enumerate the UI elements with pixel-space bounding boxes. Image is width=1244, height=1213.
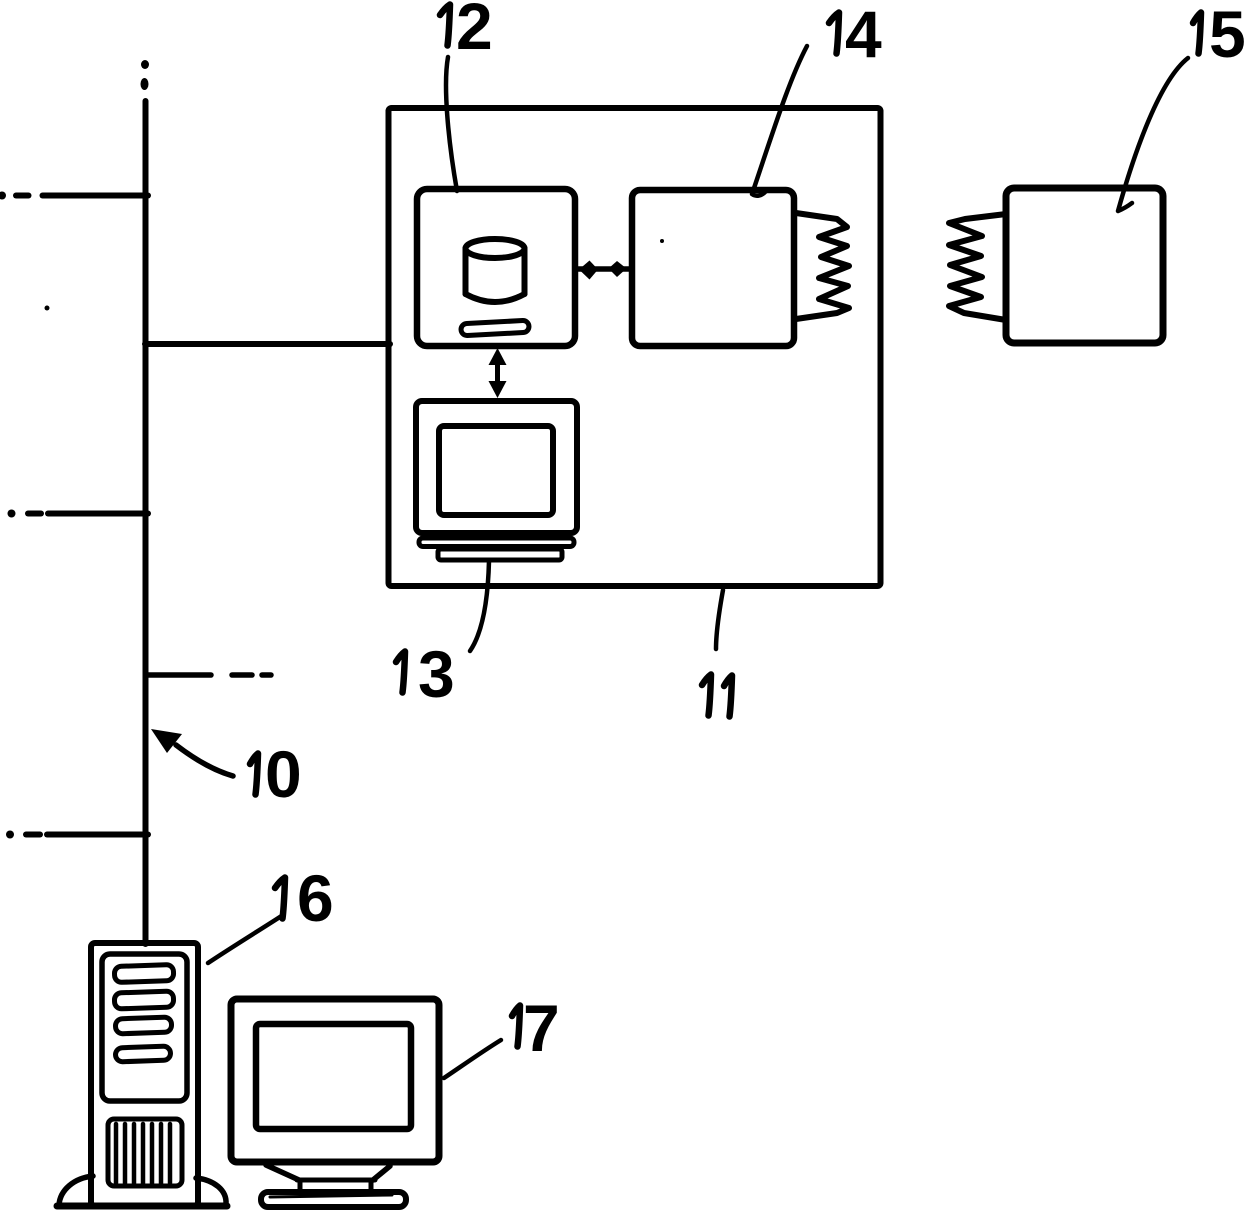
computer tower 16 body [91, 943, 198, 1206]
wire branch 1 (dash-dot, y=195) [0, 192, 148, 200]
svg-text:7: 7 [523, 991, 560, 1065]
zigzag contacts right of box 14 [796, 213, 849, 319]
tower slot 4 [115, 1046, 170, 1062]
svg-text:0: 0 [265, 737, 302, 811]
tower front panel [102, 954, 187, 1101]
leader line for 12 [446, 57, 457, 191]
monitor 13 screen [439, 426, 553, 515]
leader line for 14 [752, 46, 807, 196]
speck near box14 [660, 239, 664, 243]
svg-text:3: 3 [418, 637, 455, 711]
label 12 [440, 0, 493, 63]
label 15 [1193, 0, 1244, 71]
monitor 17 base [261, 1192, 406, 1207]
leader line for 13 [470, 561, 489, 651]
zigzag contacts left of box 15 [949, 214, 1006, 320]
label 16 [275, 861, 334, 935]
tower left foot [59, 1176, 93, 1205]
arrow from 10 to bus [151, 729, 233, 776]
leader line for 11 [716, 590, 723, 649]
network bus 10 vertical line [143, 101, 149, 944]
wire branch 4 (solid then dashed, y=675) [148, 672, 271, 678]
tower slot 2 [114, 991, 174, 1009]
wire branch 3 (dash-dot, y=513) [8, 510, 149, 518]
tower right foot [196, 1178, 226, 1204]
monitor 13 outer frame [416, 401, 577, 533]
tray below cylinder [461, 320, 530, 336]
wire branch 5 (dash-dot, y=834) [6, 831, 148, 839]
svg-text:4: 4 [845, 0, 882, 71]
box 12 (database unit) [417, 189, 575, 346]
leader line for 15 [1118, 58, 1188, 211]
leader line for 16 [208, 915, 283, 963]
box 15 (remote unit) [1006, 188, 1163, 343]
bus dotted top [141, 60, 149, 69]
speck left area [45, 306, 50, 311]
database cylinder in box 12 [466, 239, 525, 302]
tower vent grille [108, 1119, 182, 1186]
monitor 17 outer frame [231, 999, 439, 1162]
label 13 [396, 637, 455, 711]
tower base line [57, 1203, 227, 1210]
label 14 [829, 0, 882, 71]
box 14 (transceiver unit) [632, 190, 794, 346]
label 11 [702, 675, 732, 717]
box 11 (system enclosure) [389, 108, 881, 586]
monitor 17 stand [266, 1165, 390, 1193]
monitor 13 base strip [419, 538, 574, 547]
monitor 13 pedestal [438, 549, 562, 560]
double arrow between box 12 and monitor 13 [489, 348, 507, 398]
tower slot 1 [114, 964, 174, 982]
double arrow between box 12 and box 14 [576, 261, 631, 280]
svg-text:6: 6 [297, 861, 334, 935]
svg-text:5: 5 [1209, 0, 1244, 71]
label 10 [250, 737, 302, 811]
tower slot 3 [115, 1017, 171, 1034]
monitor 17 screen [256, 1024, 411, 1129]
svg-text:2: 2 [456, 0, 493, 63]
wire branch 2 (bus to box 11, y=344) [145, 341, 390, 347]
leader line for 17 [444, 1040, 501, 1078]
label 17 [512, 991, 560, 1065]
